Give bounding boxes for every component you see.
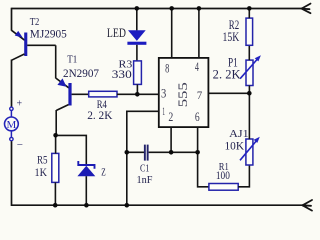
svg-text:M: M	[7, 119, 17, 131]
wire: top rail to LED anode	[136, 9, 138, 31]
label T1	[67, 55, 77, 66]
pin 2 label	[168, 109, 173, 124]
resistor R1 body	[209, 184, 238, 191]
label R3	[119, 59, 133, 71]
label MJ2905 (T2 part number)	[30, 28, 67, 40]
wire: P1 bottom to node	[248, 86, 250, 94]
wire: R2 bottom to P1 top	[248, 45, 250, 60]
wire: AJ1 top to P1 node	[248, 93, 250, 139]
junction: ground rail / pin1 branch	[125, 203, 130, 208]
pin 6 label	[195, 109, 200, 124]
svg-text:100: 100	[216, 168, 230, 182]
svg-text:1nF: 1nF	[137, 174, 153, 186]
wire: pin 8 to top rail	[171, 9, 173, 59]
wire: C1 right plate to pin2/pin6 net	[149, 151, 198, 153]
wire: R5 node to R5 body	[55, 135, 57, 153]
label R2	[229, 17, 239, 32]
op-amp/timer U1 555 box	[159, 58, 209, 127]
svg-text:LED: LED	[107, 26, 126, 40]
svg-text:C1: C1	[140, 162, 149, 174]
svg-text:T2: T2	[30, 17, 40, 28]
pin 1 label	[162, 104, 165, 118]
trimmer AJ1 adjustment arrow	[240, 137, 260, 161]
capacitor C1 right plate	[147, 145, 149, 161]
pin 7 label	[197, 88, 202, 102]
label C1	[140, 162, 149, 174]
transistor Q/T2 emitter lead (diagonal)	[12, 30, 25, 40]
wire: pin 2 down to C1 net	[170, 127, 172, 152]
wire: pin1 node down to ground rail	[126, 152, 128, 205]
junction: top rail / LED	[135, 6, 140, 11]
wire: R5 to ground rail	[54, 182, 56, 205]
label Z	[101, 168, 106, 179]
svg-text:6: 6	[195, 109, 200, 124]
svg-text:MJ2905: MJ2905	[30, 28, 67, 40]
motor M	[4, 117, 18, 131]
resistor R3 body	[134, 61, 142, 85]
wire: T1 emitter vertical drop	[55, 45, 57, 78]
transistor T2 base bar	[24, 33, 27, 57]
label LED	[107, 26, 126, 40]
wire: T2 base to T1 emitter (horizontal)	[27, 44, 56, 46]
wire: R2 top to rail	[248, 9, 250, 19]
svg-text:T1: T1	[67, 55, 77, 66]
label R1	[219, 161, 229, 173]
wire: T1 collector vertical to R5 node	[55, 110, 57, 135]
transistor T1 collector lead (diagonal)	[56, 105, 68, 111]
wire: left rail to motor + terminal	[11, 60, 13, 108]
svg-text:Z: Z	[101, 168, 106, 179]
trimmer AJ1 body	[246, 139, 253, 165]
off-page arrow (bottom right return)	[303, 200, 313, 211]
label 1K (R5 value)	[35, 165, 48, 179]
wire: terminal to motor body	[10, 111, 12, 118]
LED cathode bar	[127, 42, 146, 45]
svg-text:10K: 10K	[225, 138, 245, 152]
label R4	[97, 97, 107, 111]
transistor T1 emitter arrow (PNP)	[57, 78, 66, 86]
svg-text:1K: 1K	[35, 165, 48, 179]
junction: pin 6 / C1 net / R1	[195, 150, 200, 155]
svg-text:330: 330	[112, 67, 132, 81]
svg-text:7: 7	[197, 88, 202, 102]
svg-text:555: 555	[176, 82, 190, 107]
resistor R2 body	[246, 18, 253, 45]
junction: pin3 net / R3	[135, 92, 140, 97]
label 555 (rotated)	[176, 82, 190, 107]
svg-text:2: 2	[168, 109, 173, 124]
wire: R5 node to zener branch	[56, 135, 87, 164]
junction: top rail / pin 8	[169, 6, 174, 11]
junction: top rail / pin 4	[197, 6, 202, 11]
label AJ1	[229, 128, 249, 140]
label P1	[228, 56, 238, 70]
wire: left rail lower (motor to ground rail)	[11, 141, 13, 206]
LED diode triangle	[128, 30, 146, 41]
wire: motor body to minus terminal	[10, 131, 12, 138]
resistor R5 body	[52, 153, 59, 182]
potentiometer P1 body	[246, 60, 253, 85]
label T2	[30, 17, 40, 28]
wire: pin6 node down to R1	[198, 152, 209, 187]
pin 4 label	[195, 59, 199, 74]
svg-text:8: 8	[165, 60, 169, 75]
off-page arrow (top right supply)	[302, 4, 311, 14]
svg-text:+: +	[17, 99, 23, 110]
label 2.2K (R4 value)	[87, 108, 113, 122]
svg-text:4: 4	[195, 59, 199, 74]
junction: top rail / R2	[247, 6, 252, 11]
wire: bottom ground rail	[12, 204, 304, 206]
label 1nF (C1 value)	[137, 174, 153, 186]
transistor T1 base bar	[68, 83, 71, 106]
wire: pin 1 out left	[127, 111, 159, 152]
motor M minus terminal	[10, 137, 23, 151]
junction: pin 2 / C1 net	[169, 150, 174, 155]
wire: pin 6 down	[197, 127, 199, 152]
wire: pin 7 to P1/AJ1 node	[208, 92, 249, 94]
zener diode Z triangle (anode)	[77, 166, 95, 177]
svg-text:1: 1	[162, 104, 165, 118]
label 100 (R1 value)	[216, 168, 230, 182]
wire: left rail upper (supply corner down to T2 emitter)	[11, 8, 13, 31]
wire: R3 to pin3 net	[136, 84, 138, 94]
label R5	[37, 155, 48, 167]
svg-text:15K: 15K	[223, 29, 240, 44]
label 2N2907 (T1 part number)	[63, 66, 99, 80]
svg-text:2. 2K: 2. 2K	[213, 67, 241, 81]
wire: zener to ground rail	[85, 176, 87, 205]
svg-text:2N2907: 2N2907	[63, 66, 99, 80]
wire: T1 base to R4	[72, 93, 89, 95]
svg-text:3: 3	[161, 86, 166, 101]
svg-text:2. 2K: 2. 2K	[87, 108, 113, 122]
pin 3 label	[161, 86, 166, 101]
motor M plus terminal	[10, 99, 23, 111]
junction: T1 collector / R5 / zener	[53, 133, 58, 138]
wire: top supply rail	[12, 8, 303, 10]
potentiometer P1 adjustment arrow	[240, 55, 261, 78]
wire: pin 4 to top rail	[198, 9, 200, 59]
wire: pin1 node to C1 left plate	[127, 151, 144, 153]
transistor T1 emitter lead (diagonal)	[56, 78, 69, 88]
label 10K (AJ1 value)	[225, 138, 245, 152]
junction: pin7 net / P1 / AJ1	[247, 91, 252, 96]
wire: LED cathode to R3	[136, 45, 138, 61]
junction: ground rail / R5	[53, 203, 58, 208]
pin 8 label	[165, 60, 169, 75]
wire: R4 to 555 pin 3	[117, 93, 159, 95]
transistor T2 collector lead (diagonal)	[11, 54, 24, 60]
wire: R1 to AJ1 bottom	[238, 165, 249, 187]
label 15K (R2 value)	[223, 29, 240, 44]
resistor R4 body	[89, 91, 117, 97]
label 2.2K (P1 value)	[213, 67, 241, 81]
junction: ground rail / zener	[84, 203, 89, 208]
junction: pin1 branch / C1	[125, 150, 130, 155]
transistor T2 emitter arrow (PNP)	[15, 31, 23, 38]
label 330 (R3 value)	[112, 67, 132, 81]
capacitor C1 left plate	[144, 145, 146, 161]
svg-text:−: −	[17, 139, 23, 151]
zener diode Z cathode bar with bent ends	[78, 161, 94, 169]
